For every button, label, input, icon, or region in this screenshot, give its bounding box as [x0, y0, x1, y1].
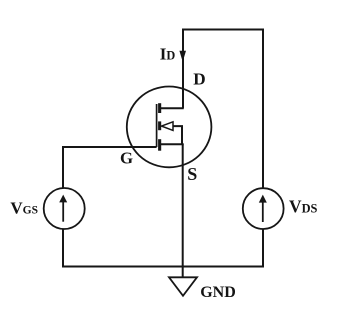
- wire gate lead horizontal: [62, 146, 157, 148]
- wire bottom (ground rail): [62, 266, 264, 268]
- gate bar: [156, 104, 158, 147]
- voltage source VDS: [243, 188, 284, 229]
- svg-text:VDS: VDS: [289, 196, 318, 216]
- VDS arrow shaft: [262, 201, 264, 222]
- channel segment body: [158, 121, 161, 130]
- wire right lower (VDS source down to ground rail): [262, 229, 264, 268]
- channel segment drain: [158, 103, 161, 113]
- wire right upper (top rail down to VDS source): [262, 29, 264, 189]
- current arrow ID on drain wire: [179, 51, 186, 62]
- svg-text:GND: GND: [200, 284, 236, 301]
- svg-text:D: D: [193, 70, 205, 89]
- svg-text:G: G: [120, 148, 133, 167]
- VGS arrow shaft: [62, 201, 64, 222]
- body internal lead to source: [173, 126, 182, 145]
- svg-text:ID: ID: [160, 45, 176, 64]
- wire left lower (VGS source down to ground rail): [62, 229, 64, 268]
- transistor body circle: [127, 87, 212, 168]
- VGS source circle: [44, 188, 85, 229]
- voltage source VGS: [44, 188, 85, 229]
- transistor M1 n-channel MOSFET: [127, 87, 212, 168]
- VDS arrow head: [259, 195, 267, 203]
- wire source vertical down to ground: [182, 144, 184, 277]
- svg-text:VGS: VGS: [10, 198, 38, 217]
- wire drain vertical: [182, 29, 184, 109]
- body arrow (points to channel): [162, 122, 174, 131]
- VDS source circle: [243, 188, 284, 229]
- source internal lead: [160, 143, 184, 145]
- drain internal lead: [160, 107, 184, 109]
- svg-text:S: S: [187, 164, 197, 184]
- channel segment source: [158, 139, 161, 151]
- VGS arrow head: [59, 195, 67, 203]
- ground: [169, 277, 197, 296]
- wire top (drain corner to VDS corner): [183, 29, 263, 31]
- wire left upper (gate corner down to VGS source): [62, 146, 64, 189]
